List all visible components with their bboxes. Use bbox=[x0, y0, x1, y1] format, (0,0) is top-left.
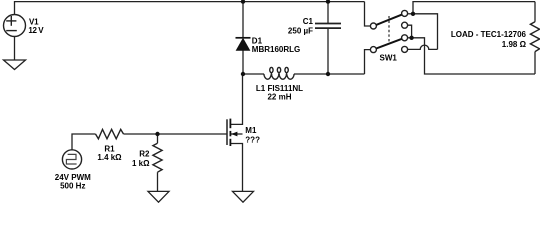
wire node B to load bottom rail bbox=[412, 38, 535, 74]
resistor R2 bbox=[153, 143, 162, 172]
wire MOSFET drain to LC node bbox=[230, 74, 242, 124]
svg-text:C1: C1 bbox=[303, 17, 314, 26]
svg-text:12 V: 12 V bbox=[28, 26, 44, 35]
wire V1 bottom to ground bbox=[14, 37, 16, 61]
ground below V1 bbox=[4, 60, 26, 70]
wire node A cross link right bbox=[413, 14, 438, 50]
wire throw3 to node B bbox=[408, 37, 412, 39]
wire R2 top lead bbox=[157, 134, 159, 143]
svg-text:250 µF: 250 µF bbox=[288, 26, 313, 35]
wire throw2 down to node B bbox=[408, 25, 412, 38]
junction node gate divider bbox=[155, 132, 159, 136]
PWM source V2 circle bbox=[62, 150, 81, 169]
load resistor TEC1 bbox=[530, 22, 539, 52]
wire throw1 to node A bbox=[408, 13, 413, 15]
svg-text:1.98 Ω: 1.98 Ω bbox=[502, 40, 527, 49]
wire pole1 feed bbox=[365, 2, 371, 26]
wire diode to LC node bbox=[242, 50, 244, 74]
junction node diode top bbox=[241, 0, 245, 4]
voltage source V1 bbox=[4, 15, 26, 37]
wire R2 bottom to ground bbox=[157, 172, 159, 191]
ground below M1 bbox=[233, 191, 254, 202]
ground below R2 bbox=[148, 191, 169, 202]
junction node C1 bottom bbox=[326, 72, 330, 76]
junction node LC bbox=[241, 72, 245, 76]
wire pole2 feed bbox=[365, 50, 371, 74]
resistor R1 bbox=[96, 129, 124, 138]
svg-text:1 kΩ: 1 kΩ bbox=[132, 159, 150, 168]
switch SW1 arm 2 bbox=[376, 39, 401, 49]
wire top rail from V1 to switch pole feed bbox=[15, 2, 365, 15]
inductor L1 coil bbox=[264, 67, 294, 79]
wire lower rail right of inductor bbox=[294, 73, 365, 75]
junction node B bbox=[409, 36, 413, 40]
switch SW1 mechanical link bbox=[388, 16, 390, 42]
switch SW1 arm 1 bbox=[376, 15, 401, 25]
svg-text:1.4 kΩ: 1.4 kΩ bbox=[97, 153, 122, 162]
wire MOSFET source to ground bbox=[230, 144, 242, 192]
svg-text:R2: R2 bbox=[139, 150, 150, 159]
junction node C1 top bbox=[326, 0, 330, 4]
svg-text:M1: M1 bbox=[245, 126, 257, 135]
svg-text:LOAD - TEC1-12706: LOAD - TEC1-12706 bbox=[451, 30, 527, 39]
PWM source square wave glyph bbox=[66, 154, 76, 164]
wire R1 to gate with node bbox=[124, 133, 227, 135]
diode D1 cathode bar bbox=[236, 37, 251, 39]
svg-text:???: ??? bbox=[245, 135, 260, 144]
wire diode branch top bbox=[242, 2, 244, 38]
transistor M1 gate bar bbox=[226, 119, 228, 145]
wire throw4 with hop over node-B wire bbox=[408, 45, 438, 49]
svg-text:22 mH: 22 mH bbox=[267, 93, 291, 102]
wire PWM source to R1 bbox=[72, 134, 96, 150]
wire lower rail left of inductor bbox=[243, 73, 264, 75]
wire load right side bottom bbox=[534, 52, 536, 74]
capacitor C1 plates bbox=[315, 24, 341, 29]
wire load right side top bbox=[534, 2, 536, 22]
svg-text:500 Hz: 500 Hz bbox=[60, 182, 85, 191]
wire C1 bottom lead bbox=[327, 28, 329, 74]
transistor M1 channel segments bbox=[229, 119, 231, 146]
transistor M1 body arrow bbox=[231, 132, 237, 137]
wire C1 top lead bbox=[327, 2, 329, 24]
switch SW1 pole contacts bbox=[370, 10, 407, 52]
wire MOSFET body lead bbox=[231, 133, 243, 135]
wire node A up to load top rail bbox=[413, 2, 535, 14]
diode D1 body bbox=[236, 39, 249, 51]
svg-text:SW1: SW1 bbox=[380, 54, 398, 63]
svg-text:MBR160RLG: MBR160RLG bbox=[252, 45, 300, 54]
junction node A bbox=[411, 12, 415, 16]
